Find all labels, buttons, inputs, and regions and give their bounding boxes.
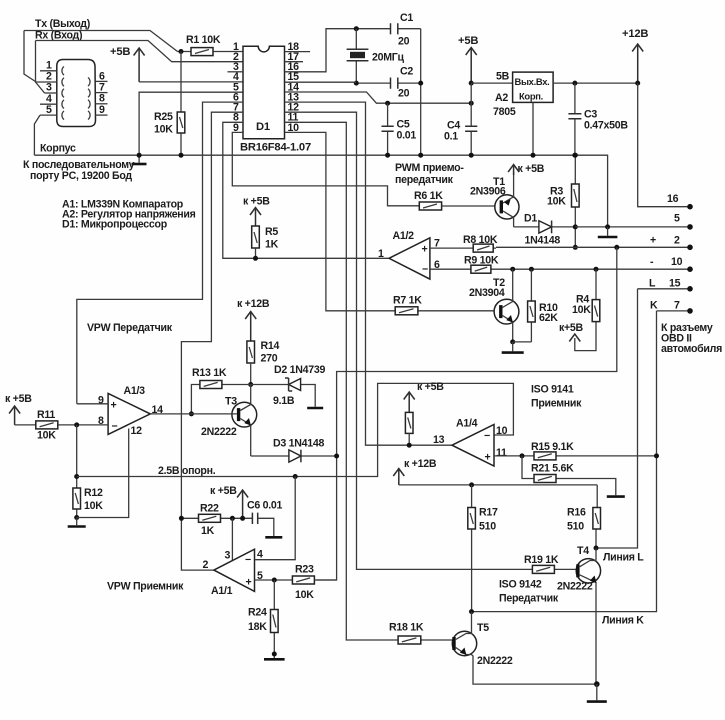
svg-text:C2: C2	[400, 66, 413, 78]
svg-text:270: 270	[261, 353, 278, 365]
resistor R19 1K	[285, 112, 577, 573]
svg-text:T4: T4	[577, 545, 589, 557]
resistor R24 18K with ground	[248, 580, 285, 659]
resistor R21 5.6K with ground	[522, 456, 625, 497]
capacitor C5 0.01	[382, 101, 417, 158]
wire A1/3 pin12 to ground node	[77, 429, 129, 518]
svg-text:2: 2	[203, 559, 209, 571]
capacitor C4 0.1	[444, 120, 477, 143]
svg-text:D1: D1	[524, 213, 537, 225]
wire A1/1 pin4 to 2.5V ref	[255, 477, 296, 560]
label OBD rows L K	[638, 278, 693, 314]
node DB9 pin 1	[40, 60, 57, 72]
svg-text:Линия L: Линия L	[603, 552, 644, 564]
wire L line vertical	[596, 289, 638, 548]
svg-text:2: 2	[674, 235, 680, 247]
op-amp A1/4	[433, 418, 508, 467]
svg-text:10: 10	[671, 256, 683, 268]
D1 left pin numbers	[233, 41, 239, 134]
ground chassis at serial port	[132, 155, 147, 164]
svg-text:D1: Микропроцессор: D1: Микропроцессор	[62, 219, 168, 231]
diode D2 1N4739 zener 9.1V	[251, 364, 326, 408]
svg-text:13: 13	[433, 434, 445, 446]
svg-text:к +5В: к +5В	[518, 163, 545, 175]
svg-text:VPW Приемник: VPW Приемник	[107, 581, 184, 593]
wire A1/3 pin9 input	[77, 403, 108, 405]
wire 2.5V reference line	[77, 383, 514, 479]
diode D3 1N4148	[251, 438, 339, 463]
svg-text:к +5В: к +5В	[5, 393, 32, 405]
svg-text:T5: T5	[477, 622, 489, 634]
svg-text:11: 11	[496, 447, 507, 459]
wire +12V stem to OBD pin16 row	[638, 83, 690, 207]
wire bus- row to OBD pin10	[494, 256, 693, 272]
svg-text:14: 14	[152, 404, 164, 416]
node DB9 pin 6	[96, 70, 108, 82]
svg-text:+: +	[485, 452, 491, 464]
power к+5В arrow at T1 emitter	[508, 163, 545, 175]
wire D1 pin17 stub	[285, 61, 304, 63]
svg-text:ISO 9141: ISO 9141	[531, 384, 574, 396]
capacitor C3 0.47x50V	[568, 81, 628, 158]
svg-text:Вых.Вх.: Вых.Вх.	[515, 76, 550, 87]
crystal 20MHz	[347, 26, 405, 83]
svg-text:R19 1K: R19 1K	[524, 554, 559, 566]
svg-text:R17: R17	[479, 507, 498, 519]
resistor R1 10K	[178, 34, 244, 56]
svg-text:A2: A2	[495, 92, 508, 104]
svg-text:16: 16	[667, 193, 679, 205]
wire D1 pin7 bus down to A1/1 output	[181, 112, 243, 570]
svg-text:10: 10	[496, 425, 508, 437]
resistor R12 10K with ground	[68, 425, 104, 527]
connector X1 DB9 serial	[57, 60, 96, 127]
label OBD row 16	[667, 193, 693, 210]
resistor R23 10K	[255, 564, 337, 602]
wire Tx label line	[24, 18, 178, 82]
svg-text:к +5В: к +5В	[417, 381, 444, 393]
wire A1/1 pin3 supply stub	[225, 516, 235, 562]
svg-text:7: 7	[674, 300, 680, 312]
node DB9 pin 5	[40, 104, 57, 116]
svg-text:R6 1K: R6 1K	[414, 190, 443, 202]
capacitor C1 20	[391, 12, 421, 48]
svg-text:R23: R23	[295, 564, 314, 576]
svg-text:9.1В: 9.1В	[273, 395, 295, 407]
svg-text:+: +	[111, 400, 117, 412]
resistor R16 510	[567, 485, 601, 551]
svg-text:D2 1N4739: D2 1N4739	[274, 364, 325, 376]
svg-text:10K: 10K	[572, 304, 591, 316]
svg-text:5: 5	[674, 213, 680, 225]
transistor T4 2N2222	[557, 545, 601, 684]
svg-text:10K: 10K	[37, 430, 56, 442]
D1 right pin numbers	[288, 41, 300, 134]
svg-text:12: 12	[131, 425, 143, 437]
resistor R25 10K	[154, 52, 185, 158]
wire A1/3 output to T3 base	[150, 413, 237, 415]
wire bus+ row to OBD pin2	[496, 235, 693, 251]
label ISO 9141 receiver	[531, 384, 582, 410]
svg-text:Линия K: Линия K	[602, 615, 644, 627]
svg-text:A1/3: A1/3	[124, 385, 146, 397]
wire T2 emitter to ground with R10	[502, 339, 532, 352]
ground bottom main	[587, 681, 607, 701]
svg-text:2N2222: 2N2222	[477, 655, 513, 667]
svg-text:VPW Передатчик: VPW Передатчик	[87, 322, 173, 334]
svg-text:Tx (Выход): Tx (Выход)	[35, 18, 90, 30]
resistor R10 62K	[528, 269, 559, 342]
svg-text:1K: 1K	[265, 239, 279, 251]
svg-text:+: +	[422, 244, 428, 256]
svg-text:510: 510	[567, 521, 584, 533]
label PWM section	[395, 162, 464, 186]
svg-text:A1/1: A1/1	[211, 585, 233, 597]
node DB9 pin 8	[96, 93, 108, 105]
svg-text:+12В: +12В	[622, 28, 648, 40]
wire A1/4 output row from D1 pin13 bus	[285, 102, 453, 445]
wire Корпус to ground rail	[34, 115, 76, 155]
svg-text:автомобиля: автомобиля	[661, 343, 722, 355]
resistor R13 1K	[189, 367, 251, 416]
svg-text:0.47x50В: 0.47x50В	[584, 120, 628, 132]
svg-text:R22: R22	[200, 503, 219, 515]
resistor R3 10K	[547, 153, 579, 250]
svg-text:1N4148: 1N4148	[525, 235, 561, 247]
resistor R9 10K on bus- row	[430, 255, 499, 274]
svg-text:Корп.: Корп.	[519, 91, 543, 102]
svg-text:к+5В: к+5В	[559, 322, 584, 334]
svg-text:A1/4: A1/4	[456, 418, 478, 430]
resistor R17 510	[468, 485, 498, 612]
svg-text:1K: 1K	[201, 525, 215, 537]
resistor R18 1K	[285, 122, 453, 644]
IC D1 BR16F84 microcontroller	[240, 46, 311, 153]
svg-text:0.1: 0.1	[444, 131, 458, 143]
resistor R6 1K	[414, 190, 501, 210]
wire D1 pin14 to +5V line	[285, 92, 472, 103]
svg-text:R7 1K: R7 1K	[393, 295, 422, 307]
svg-text:20: 20	[398, 88, 410, 100]
transistor T3 2N2222	[201, 385, 257, 457]
svg-text:+: +	[650, 235, 656, 247]
label OBD connector	[661, 322, 722, 355]
svg-text:20: 20	[398, 36, 410, 48]
svg-text:Приемник: Приемник	[531, 398, 582, 410]
svg-text:R5: R5	[265, 226, 278, 238]
op-amp A1/2	[378, 230, 440, 279]
svg-text:9: 9	[98, 395, 104, 407]
svg-text:R11: R11	[37, 409, 55, 421]
svg-text:8: 8	[99, 93, 105, 105]
wire Rx label line	[35, 30, 243, 94]
svg-text:порту PC, 19200 Бод: порту PC, 19200 Бод	[30, 170, 132, 182]
wire +5V to D1 pin4	[139, 81, 243, 83]
svg-text:10K: 10K	[295, 589, 314, 601]
svg-text:L: L	[649, 278, 656, 290]
svg-text:7: 7	[99, 81, 105, 93]
svg-text:+5В: +5В	[110, 46, 130, 58]
wire regulator input row to +12V	[553, 82, 638, 84]
wire D1 pin18 stub	[285, 51, 311, 53]
resistor R7 1K	[285, 132, 495, 314]
svg-text:D1: D1	[256, 121, 270, 133]
svg-text:к +12В: к +12В	[404, 458, 437, 470]
svg-text:Rx (Вход): Rx (Вход)	[35, 30, 82, 42]
node DB9 pin 7	[96, 81, 108, 93]
svg-text:передатчик: передатчик	[395, 174, 454, 186]
svg-text:0.01: 0.01	[397, 130, 417, 142]
transistor T2 2N3904	[469, 269, 519, 342]
svg-text:5: 5	[46, 104, 52, 116]
capacitor C6 0.01 with ground	[247, 500, 283, 538]
svg-text:5В: 5В	[496, 71, 510, 83]
wire D1 pin8 bus to A1/2 output	[223, 122, 389, 258]
svg-text:PWM приемо-: PWM приемо-	[395, 162, 464, 174]
node DB9 pin 9	[96, 104, 108, 116]
svg-text:15: 15	[669, 278, 681, 290]
svg-text:R21 5.6K: R21 5.6K	[531, 463, 574, 475]
wire D1 pin3 stub	[228, 71, 244, 73]
svg-text:2N3906: 2N3906	[470, 186, 506, 198]
svg-text:7805: 7805	[493, 106, 516, 118]
svg-text:1: 1	[378, 248, 384, 260]
svg-text:к +5В: к +5В	[243, 196, 270, 208]
svg-text:+: +	[246, 577, 252, 589]
svg-text:к +12В: к +12В	[237, 298, 270, 310]
wire D1 pin6 bus down	[77, 102, 243, 404]
svg-text:C6 0.01: C6 0.01	[247, 500, 283, 512]
wire OBD row 5 with ground	[575, 213, 693, 238]
power к+12В arrow + resistor R14 270	[237, 298, 279, 387]
svg-text:4: 4	[257, 549, 263, 561]
power +5V arrow (center)	[458, 35, 478, 83]
svg-text:2.5В опорн.: 2.5В опорн.	[158, 465, 216, 477]
svg-text:Корпус: Корпус	[40, 143, 76, 155]
svg-text:D3 1N4148: D3 1N4148	[273, 438, 324, 450]
svg-text:20МГц: 20МГц	[372, 52, 404, 64]
svg-text:R13 1K: R13 1K	[192, 367, 227, 379]
resistor R15 9.1K	[494, 441, 659, 460]
svg-text:−: −	[422, 264, 428, 276]
svg-text:+5В: +5В	[458, 35, 478, 47]
legend text block	[62, 199, 196, 231]
op-amp A1/1	[203, 549, 264, 598]
diode D1 1N4148	[514, 213, 576, 247]
svg-text:−: −	[112, 421, 118, 433]
power к+5В arrow at C6 node	[210, 485, 248, 521]
transistor T5 2N2222	[452, 612, 597, 685]
label ISO 9142 transmitter	[499, 579, 559, 605]
transistor T1 2N3906	[470, 172, 519, 227]
resistor R4 10K with к+5В	[559, 269, 600, 350]
wire D1 pin15 to crystal bottom	[285, 81, 357, 83]
svg-text:2N2222: 2N2222	[201, 426, 237, 438]
svg-text:Передатчик: Передатчик	[499, 593, 559, 605]
wire D1 pin16 to crystal top	[285, 29, 391, 72]
svg-text:R12: R12	[84, 487, 103, 499]
svg-text:BR16F84-1.07: BR16F84-1.07	[240, 142, 311, 154]
resistor R22 1K	[179, 503, 253, 538]
wire +5V stem down with C4	[469, 81, 474, 158]
svg-text:10K: 10K	[84, 500, 103, 512]
label serial port	[23, 159, 135, 182]
node DB9 pin 4	[40, 93, 57, 105]
ground rail main	[34, 155, 607, 227]
wire C1/C2 right vertical to ground rail	[420, 29, 422, 156]
svg-text:R14: R14	[261, 340, 280, 352]
op-amp A1/3	[98, 385, 163, 437]
svg-text:18K: 18K	[248, 621, 267, 633]
svg-text:62K: 62K	[539, 312, 558, 324]
svg-text:10K: 10K	[154, 124, 173, 136]
svg-text:K: K	[650, 300, 658, 312]
node DB9 pin 3	[45, 82, 57, 94]
svg-text:R25: R25	[154, 111, 173, 123]
svg-text:ISO 9142: ISO 9142	[499, 579, 542, 591]
node DB9 pin 2	[36, 71, 57, 83]
svg-text:к +5В: к +5В	[210, 485, 237, 497]
svg-text:R24: R24	[248, 607, 267, 619]
wire D1 pin9 bus to R6 PWM drive	[232, 132, 419, 205]
svg-text:3: 3	[46, 82, 52, 94]
resistor R8 10K on bus+ row	[430, 234, 498, 252]
svg-text:R18 1K: R18 1K	[389, 622, 424, 634]
svg-text:2N3904: 2N3904	[469, 287, 505, 299]
svg-text:C1: C1	[400, 12, 413, 24]
svg-text:10K: 10K	[547, 196, 566, 208]
svg-text:9: 9	[99, 104, 105, 116]
power к+5В arrow + resistor R11 10K	[5, 393, 108, 442]
svg-text:A1/2: A1/2	[393, 230, 415, 242]
power +5V arrow (left)	[110, 46, 145, 82]
power +12V arrow	[622, 28, 648, 86]
wire bus+ branch to VPW node	[317, 247, 617, 580]
svg-text:R1 10K: R1 10K	[186, 34, 221, 46]
power к+5В arrow + pull-up resistor on output 13	[404, 381, 445, 448]
power к+12В arrow rail	[393, 458, 597, 487]
svg-text:3: 3	[225, 550, 231, 562]
regulator A2 7805	[493, 72, 553, 158]
wire 5V row to regulator	[471, 71, 512, 84]
capacitor C2 20	[354, 66, 421, 100]
svg-text:−: −	[245, 554, 251, 566]
wire D1 pin5 to ground rail	[139, 92, 243, 155]
svg-text:R16: R16	[567, 507, 586, 519]
wire K line vertical	[472, 311, 657, 612]
power к+5В arrow + resistor R5 1K	[243, 196, 279, 261]
svg-text:−: −	[484, 430, 490, 442]
svg-text:510: 510	[479, 521, 496, 533]
